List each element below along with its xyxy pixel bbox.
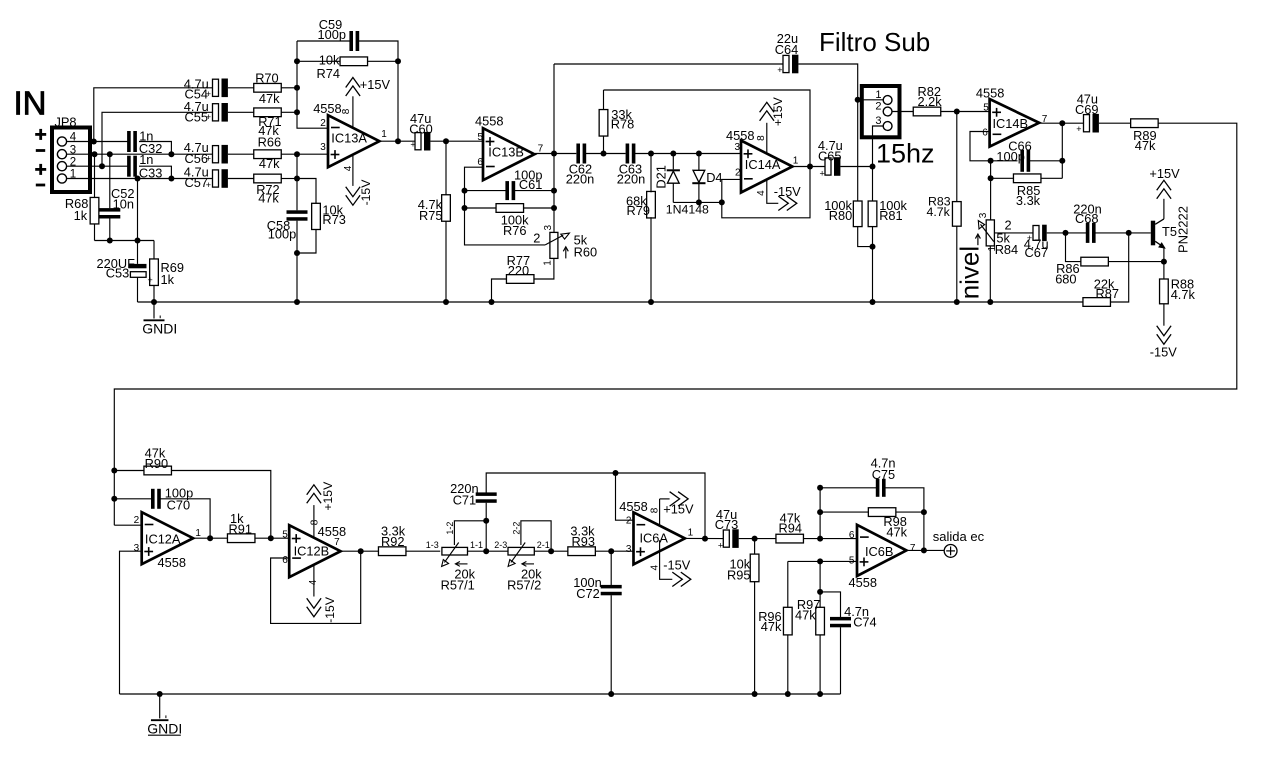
svg-text:2: 2 bbox=[735, 168, 741, 179]
svg-text:4558: 4558 bbox=[313, 101, 341, 116]
capacitor C69 47u bbox=[1084, 115, 1090, 132]
resistor R83 4.7k bbox=[956, 112, 958, 202]
junction D21 top bbox=[670, 151, 676, 157]
trimmer arrow R60 bbox=[565, 248, 567, 258]
svg-text:IC14A: IC14A bbox=[745, 157, 781, 172]
junction emitter node bbox=[1161, 259, 1167, 265]
svg-text:R80: R80 bbox=[829, 208, 852, 223]
svg-text:C53: C53 bbox=[106, 266, 129, 281]
svg-text:IN: IN bbox=[14, 85, 47, 122]
wire connector pin2 to R82 bbox=[892, 111, 913, 113]
svg-text:7: 7 bbox=[910, 543, 916, 554]
junction C70 right bbox=[207, 535, 213, 541]
junction IC13B output bbox=[551, 151, 557, 157]
svg-text:3: 3 bbox=[978, 212, 989, 218]
resistor R66 47k bbox=[254, 150, 282, 159]
capacitor C53 220UF bbox=[137, 241, 139, 264]
resistor R81 100k bbox=[872, 167, 874, 202]
svg-text:GNDI: GNDI bbox=[142, 321, 177, 337]
svg-text:R75: R75 bbox=[419, 208, 442, 223]
junction pin4 bbox=[91, 139, 97, 145]
wire C71 to feedback rail bbox=[486, 473, 705, 539]
svg-text:47k: 47k bbox=[886, 524, 907, 539]
capacitor C70 100p bbox=[114, 498, 152, 500]
connector 15hz bbox=[862, 86, 900, 137]
svg-text:IC6A: IC6A bbox=[640, 530, 669, 545]
junction IC13A output bbox=[395, 138, 401, 144]
wire IC13B output row bbox=[535, 153, 576, 155]
capacitor C68 220n bbox=[1086, 223, 1090, 243]
svg-text:D4: D4 bbox=[706, 170, 722, 185]
wire C54 to R70 bbox=[228, 87, 254, 89]
wire pin4 row to C32 bbox=[90, 141, 129, 143]
svg-text:C55: C55 bbox=[185, 109, 208, 124]
op-amp IC12B 4558 bbox=[289, 525, 340, 577]
svg-text:4: 4 bbox=[756, 190, 767, 196]
svg-text:4558: 4558 bbox=[619, 499, 647, 514]
svg-text:R70: R70 bbox=[255, 70, 278, 85]
resistor R72 47k bbox=[254, 174, 282, 183]
wire IC6A output to C73 bbox=[685, 537, 723, 539]
svg-text:4558: 4558 bbox=[158, 555, 186, 570]
svg-text:C60: C60 bbox=[409, 122, 432, 137]
capacitor C72 100n bbox=[610, 551, 612, 585]
junction R74 left bbox=[294, 58, 300, 64]
capacitor C65 4.7u bbox=[825, 158, 831, 175]
resistor R89 47k bbox=[1131, 119, 1159, 128]
svg-text:R76: R76 bbox=[503, 223, 526, 238]
wire C56 to R66 bbox=[228, 153, 254, 155]
capacitor C73 47u bbox=[723, 530, 729, 547]
wire IC13A output to C60 bbox=[379, 140, 415, 142]
resistor R68 1k bbox=[94, 154, 96, 197]
junction D4 bottom bbox=[696, 199, 702, 205]
potentiometer R84 5k nivel bbox=[990, 178, 992, 220]
svg-text:100p: 100p bbox=[268, 227, 296, 242]
svg-text:+15V: +15V bbox=[1149, 166, 1180, 181]
resistor R77 220 bbox=[506, 275, 534, 284]
svg-text:C65: C65 bbox=[818, 149, 841, 164]
svg-text:4558: 4558 bbox=[849, 575, 877, 590]
wire C68 to T5 base bbox=[1095, 232, 1151, 234]
svg-text:C61: C61 bbox=[519, 177, 542, 192]
junction R81 ground bbox=[870, 299, 876, 305]
svg-text:2: 2 bbox=[134, 515, 140, 526]
svg-text:2: 2 bbox=[533, 231, 540, 246]
svg-text:1: 1 bbox=[195, 528, 201, 539]
svg-text:3: 3 bbox=[320, 142, 326, 153]
svg-text:1: 1 bbox=[381, 129, 387, 140]
wire IC12A output bbox=[193, 537, 227, 539]
svg-text:4558: 4558 bbox=[976, 85, 1004, 100]
svg-text:IC12A: IC12A bbox=[145, 532, 181, 547]
wire pin2 to C55 row bbox=[102, 112, 213, 166]
junction C72 ground bbox=[608, 691, 614, 697]
svg-text:4558: 4558 bbox=[318, 524, 346, 539]
svg-text:salida ec: salida ec bbox=[933, 529, 985, 544]
resistor R94 47k bbox=[776, 534, 804, 543]
svg-text:R95: R95 bbox=[727, 567, 750, 582]
ground symbol GNDI bottom bbox=[159, 694, 161, 718]
junction R70/inverting node bbox=[294, 85, 300, 91]
capacitor C62 220n bbox=[576, 144, 580, 164]
wire connector pin1 bbox=[858, 99, 884, 101]
wire R87 to base bbox=[1110, 233, 1129, 302]
resistor R78 33k bbox=[603, 90, 605, 110]
svg-text:IC12B: IC12B bbox=[294, 544, 330, 559]
svg-text:-15V: -15V bbox=[774, 184, 801, 199]
svg-text:47k: 47k bbox=[258, 191, 279, 206]
junction R86 branch bbox=[1063, 230, 1069, 236]
svg-text:1k: 1k bbox=[74, 208, 88, 223]
junction R83 ground bbox=[954, 299, 960, 305]
wire R57/1 to R57/2 bbox=[468, 550, 509, 552]
svg-text:R74: R74 bbox=[317, 66, 340, 81]
svg-text:+: + bbox=[206, 180, 211, 190]
wire R57/2 wiper tied to pin 2-1 bbox=[521, 521, 551, 551]
wire C67 to C68 bbox=[1047, 232, 1087, 234]
svg-text:47k: 47k bbox=[1135, 138, 1156, 153]
junction feedback right bbox=[702, 536, 708, 542]
svg-text:C75: C75 bbox=[872, 467, 895, 482]
svg-text:8: 8 bbox=[649, 507, 660, 513]
capacitor C58 100p bbox=[296, 179, 298, 211]
svg-text:+: + bbox=[1076, 124, 1081, 134]
svg-text:-15V: -15V bbox=[323, 596, 337, 623]
junction R74 right bbox=[395, 58, 401, 64]
capacitor C71 220n bbox=[485, 503, 487, 552]
junction C61 left bbox=[462, 188, 468, 194]
svg-text:R93: R93 bbox=[572, 534, 595, 549]
wire input bus IC12A bbox=[114, 524, 141, 526]
junction R68 top bbox=[92, 151, 98, 157]
svg-text:R60: R60 bbox=[574, 244, 597, 259]
svg-text:T5: T5 bbox=[1162, 224, 1177, 239]
svg-text:+: + bbox=[410, 140, 415, 150]
svg-text:8: 8 bbox=[309, 519, 320, 525]
capacitor C57 4.7u bbox=[213, 170, 219, 187]
junction C53 branch bbox=[135, 176, 141, 182]
wire IC14B output to C69 bbox=[1039, 122, 1083, 124]
svg-text:100p: 100p bbox=[318, 27, 346, 42]
svg-text:R57/2: R57/2 bbox=[507, 577, 541, 592]
wire pin1 node down to C53 bbox=[137, 179, 139, 241]
svg-text:-15V: -15V bbox=[1150, 344, 1177, 359]
svg-text:GNDI: GNDI bbox=[147, 720, 182, 736]
capacitor C55 4.7u bbox=[213, 104, 219, 121]
junction R90 left bbox=[111, 468, 117, 474]
capacitor C56 4.7u bbox=[213, 146, 219, 163]
potentiometer R60 5k bbox=[553, 222, 555, 233]
svg-text:1-1: 1-1 bbox=[470, 540, 483, 550]
wire R72 out bbox=[281, 178, 297, 180]
wire R70 out bbox=[281, 87, 297, 89]
svg-text:10n: 10n bbox=[113, 196, 134, 211]
junction C70 left bbox=[111, 496, 117, 502]
op-amp IC12A 4558 bbox=[142, 512, 193, 564]
svg-text:C73: C73 bbox=[715, 517, 738, 532]
wire C59 to output node bbox=[358, 41, 398, 141]
junction C66 bus left bbox=[988, 158, 994, 164]
svg-text:2-3: 2-3 bbox=[494, 540, 507, 550]
svg-text:R57/1: R57/1 bbox=[441, 577, 475, 592]
svg-text:IC14B: IC14B bbox=[993, 116, 1029, 131]
junction R97 ground bbox=[817, 691, 823, 697]
wire IC12B output bbox=[339, 550, 378, 552]
-15V supply arrow IC13A bbox=[352, 155, 354, 186]
junction C61 right bbox=[551, 188, 557, 194]
resistor R95 10k bbox=[754, 539, 756, 555]
op-amp IC6A 4558 bbox=[634, 512, 685, 564]
svg-text:8: 8 bbox=[756, 135, 767, 141]
wire C70 to output node bbox=[160, 499, 210, 538]
junction R84 ground bbox=[987, 299, 993, 305]
wire R60 pin1 to R77 bbox=[534, 258, 554, 279]
junction C74 branch bbox=[817, 589, 823, 595]
svg-text:1: 1 bbox=[688, 528, 694, 539]
capacitor C59 100p feedback bbox=[297, 40, 351, 42]
resistor R98 47k bbox=[820, 511, 868, 513]
svg-text:220n: 220n bbox=[617, 171, 645, 186]
svg-text:4: 4 bbox=[343, 165, 354, 171]
svg-text:Filtro Sub: Filtro Sub bbox=[819, 27, 930, 57]
svg-text:3: 3 bbox=[735, 142, 741, 153]
junction C32/pin3 row bbox=[168, 151, 174, 157]
svg-text:1: 1 bbox=[793, 156, 799, 167]
junction non-inverting node bbox=[294, 151, 300, 157]
junction output node bbox=[921, 547, 927, 553]
resistor R76 100k bbox=[465, 207, 497, 209]
svg-text:7: 7 bbox=[334, 537, 340, 548]
junction C65 out node bbox=[870, 164, 876, 170]
resistor R88 4.7k bbox=[1163, 262, 1165, 279]
svg-text:1-3: 1-3 bbox=[426, 540, 439, 550]
junction C71 bottom bbox=[483, 548, 489, 554]
+15V supply arrow IC14A bbox=[766, 123, 768, 154]
junction R80 top / pin1 bbox=[855, 97, 861, 103]
wire R57/2 to R93 bbox=[534, 550, 568, 552]
svg-text:100p: 100p bbox=[996, 149, 1024, 164]
resistor R86 680 bbox=[1081, 257, 1109, 266]
svg-text:3: 3 bbox=[875, 115, 881, 127]
junction C75 left bbox=[817, 485, 823, 491]
svg-text:C68: C68 bbox=[1075, 211, 1098, 226]
capacitor C61 100p bbox=[465, 190, 507, 192]
wire R82 to IC14B pin5 bbox=[941, 111, 990, 113]
wire C32 down to pin3 row bbox=[139, 142, 171, 155]
svg-text:C74: C74 bbox=[853, 614, 876, 629]
junction R96 ground bbox=[785, 691, 791, 697]
svg-text:6: 6 bbox=[849, 530, 855, 541]
svg-text:5: 5 bbox=[477, 132, 483, 143]
op-amp IC13A 4558 bbox=[328, 115, 379, 167]
svg-text:-15V: -15V bbox=[663, 557, 690, 572]
junction C33/pin1 row bbox=[168, 176, 174, 182]
output terminal salida ec bbox=[944, 545, 957, 558]
svg-text:4: 4 bbox=[649, 565, 660, 571]
wire IC6B output bbox=[906, 549, 944, 551]
resistor R74 10k feedback bbox=[297, 60, 340, 62]
svg-text:R90: R90 bbox=[145, 456, 168, 471]
wire C67 node to R86 bbox=[1066, 233, 1081, 262]
svg-text:R81: R81 bbox=[879, 208, 902, 223]
junction R95 ground bbox=[752, 691, 758, 697]
junction C66 right bbox=[1059, 158, 1065, 164]
resistor R96 47k bbox=[787, 561, 789, 607]
svg-text:6: 6 bbox=[477, 157, 483, 168]
capacitor C33 1n bbox=[127, 156, 131, 177]
svg-text:2-1: 2-1 bbox=[537, 540, 550, 550]
capacitor C67 4.7u bbox=[1033, 226, 1039, 241]
resistor R92 3.3k bbox=[378, 547, 406, 556]
svg-text:+: + bbox=[820, 169, 825, 179]
junction R75 top bbox=[443, 138, 449, 144]
junction wiper node bbox=[483, 518, 489, 524]
svg-text:-15V: -15V bbox=[359, 179, 373, 206]
wire pin3 row bbox=[90, 153, 213, 155]
wire junction row below R68 bbox=[95, 240, 155, 242]
wire C69 to R89 bbox=[1099, 122, 1131, 124]
capacitor C52 10n bbox=[109, 154, 111, 208]
resistor R90 47k feedback bbox=[114, 470, 144, 472]
wire R94 to IC6B pin6 bbox=[803, 538, 857, 540]
junction GNDI top bbox=[151, 299, 157, 305]
capacitor C32 1n bbox=[127, 131, 131, 152]
svg-text:1N4148: 1N4148 bbox=[666, 203, 709, 217]
svg-text:+: + bbox=[206, 89, 211, 99]
junction C52 top bbox=[107, 151, 113, 157]
svg-text:C70: C70 bbox=[167, 497, 190, 512]
diode D4 1N4148 bbox=[698, 154, 700, 172]
polarity marks + - + - at JP8 bbox=[35, 133, 46, 136]
capacitor C74 4.7n bbox=[820, 592, 840, 617]
svg-text:C64: C64 bbox=[775, 42, 798, 57]
junction C58 bottom bbox=[294, 250, 300, 256]
junction R76 right bbox=[551, 205, 557, 211]
wire pin2 row to C33 bbox=[90, 165, 129, 167]
svg-text:47k: 47k bbox=[795, 607, 816, 622]
junction R83 top bbox=[954, 109, 960, 115]
wire R66 to IC13A pin3 bbox=[281, 153, 328, 155]
wire R66/R72 node vertical bbox=[296, 154, 298, 178]
resistor R70 47k bbox=[254, 83, 282, 92]
svg-text:47k: 47k bbox=[761, 619, 782, 634]
svg-text:2.2k: 2.2k bbox=[918, 94, 943, 109]
op-amp IC14B 4558 bbox=[990, 99, 1040, 147]
resistor R79 68k bbox=[650, 154, 652, 193]
svg-text:3: 3 bbox=[626, 544, 632, 555]
svg-text:C72: C72 bbox=[576, 586, 599, 601]
svg-text:8: 8 bbox=[341, 108, 352, 114]
junction R75 ground bbox=[443, 299, 449, 305]
junction C53 top node bbox=[135, 238, 141, 244]
+15V supply arrow IC12B bbox=[313, 505, 315, 538]
junction C52 bottom bbox=[107, 238, 113, 244]
svg-text:R92: R92 bbox=[381, 534, 404, 549]
junction R77 ground bbox=[489, 299, 495, 305]
svg-text:10k: 10k bbox=[319, 52, 340, 67]
junction R78 bottom bbox=[601, 151, 607, 157]
junction R97 top bbox=[817, 558, 823, 564]
junction R87 top bbox=[1126, 230, 1132, 236]
wire IC6A pin2 to feedback rail bbox=[616, 473, 634, 520]
svg-text:R78: R78 bbox=[611, 117, 634, 132]
op-amp IC6B 4558 bbox=[857, 525, 906, 576]
resistor R93 3.3k bbox=[568, 547, 596, 556]
svg-text:2: 2 bbox=[875, 101, 881, 113]
svg-text:3.3k: 3.3k bbox=[1016, 193, 1041, 208]
svg-text:4558: 4558 bbox=[475, 114, 503, 129]
transistor T5 PN2222 bbox=[1151, 221, 1155, 246]
junction R76 left bbox=[462, 205, 468, 211]
resistor R73 10k bbox=[297, 179, 316, 204]
capacitor C54 4.7u bbox=[213, 79, 219, 96]
junction R79 top bbox=[648, 151, 654, 157]
wire IC13B output vertical bus bbox=[553, 64, 555, 222]
+15V supply arrow T5 bbox=[1157, 180, 1171, 190]
junction R98 left bbox=[817, 509, 823, 515]
-15V supply arrow IC14A bbox=[767, 179, 779, 203]
svg-text:6: 6 bbox=[982, 128, 988, 139]
resistor R75 4.7k bbox=[445, 141, 447, 195]
svg-text:3: 3 bbox=[543, 225, 554, 231]
potentiometer R57/1 20k bbox=[442, 547, 468, 555]
svg-text:47k: 47k bbox=[259, 156, 280, 171]
wire R86 to emitter bbox=[1109, 261, 1164, 263]
junction R79 ground bbox=[648, 299, 654, 305]
-15V supply arrow IC6A bbox=[660, 540, 673, 579]
svg-text:4.7k: 4.7k bbox=[927, 205, 951, 219]
wire IC14A pin2 loop bbox=[722, 167, 810, 218]
resistor R97 47k bbox=[819, 561, 821, 607]
svg-text:2: 2 bbox=[320, 118, 326, 129]
svg-text:15hz: 15hz bbox=[876, 139, 935, 169]
svg-text:4: 4 bbox=[308, 579, 319, 585]
wire C33 down to pin1 row bbox=[139, 166, 171, 178]
svg-text:R84: R84 bbox=[995, 242, 1018, 257]
wire R90 to output node bbox=[171, 471, 270, 539]
svg-text:IC13B: IC13B bbox=[488, 144, 524, 159]
wire IC6B feedback bus vertical bbox=[819, 488, 821, 539]
svg-text:6: 6 bbox=[282, 555, 288, 566]
resistor R69 1k bbox=[153, 241, 155, 260]
junction D4 top bbox=[696, 151, 702, 157]
potentiometer R57/2 20k bbox=[508, 547, 534, 555]
resistor R80 100k bbox=[857, 100, 859, 201]
wire pin4 to C54 row bbox=[94, 88, 213, 142]
resistor R85 3.3k bbox=[991, 177, 1014, 179]
junction IC14B output bbox=[1059, 120, 1065, 126]
svg-text:C67: C67 bbox=[1025, 245, 1048, 260]
svg-text:IC6B: IC6B bbox=[865, 544, 893, 559]
svg-text:4.7k: 4.7k bbox=[1171, 287, 1196, 302]
-15V supply arrow R88 bbox=[1163, 304, 1165, 326]
wire C75 to output bbox=[885, 488, 924, 551]
svg-text:IC13A: IC13A bbox=[331, 130, 367, 145]
junction R57/2 wiper tie bbox=[548, 548, 554, 554]
wire R71 out bbox=[281, 111, 297, 113]
junction output/feedback bbox=[807, 164, 813, 170]
junction pin2 bbox=[99, 163, 105, 169]
wire C57 to R72 bbox=[228, 178, 254, 180]
svg-text:C71: C71 bbox=[453, 492, 476, 507]
junction IC12B output bbox=[358, 548, 364, 554]
junction feedback bus IC6B bbox=[817, 536, 823, 542]
junction R71/inverting node bbox=[294, 109, 300, 115]
op-amp IC13B 4558 bbox=[483, 128, 534, 180]
svg-text:R87: R87 bbox=[1096, 286, 1119, 301]
svg-text:R79: R79 bbox=[627, 203, 650, 218]
